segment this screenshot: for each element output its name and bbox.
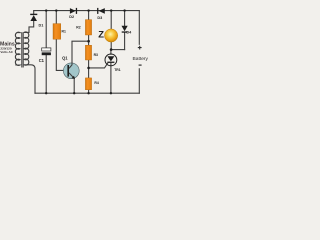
svg-text:Volts AC: Volts AC	[0, 50, 13, 54]
svg-text:Battery: Battery	[133, 56, 149, 62]
wire C1 bottom lead	[45, 55, 47, 93]
wire LED/D4/TR1 anode node	[111, 49, 124, 51]
SCR TR1	[105, 54, 117, 66]
svg-text:TR1: TR1	[114, 68, 121, 72]
wire R1 top lead	[55, 11, 57, 24]
junction node R2/R3/Q1 collector	[87, 40, 90, 43]
capacitor C1	[42, 48, 51, 55]
wire LED bottom lead	[110, 42, 112, 49]
svg-text:R4: R4	[94, 81, 98, 85]
junction node R3/R4/TR1 gate	[87, 67, 90, 70]
wire gate node to TR1 gate	[89, 63, 108, 68]
junction top rail / LED	[110, 9, 112, 11]
transistor Q1	[63, 41, 79, 93]
transformer T1 core	[22, 32, 23, 67]
wire D4 bottom lead	[124, 32, 126, 49]
diode D4	[122, 26, 128, 33]
wire top rail	[34, 10, 140, 12]
wire TR1 anode	[110, 50, 112, 55]
wire C1 top lead	[45, 11, 47, 48]
wire R1 bottom lead to Q1 base	[56, 39, 67, 71]
junction top rail / D4	[123, 9, 125, 11]
svg-text:Z: Z	[98, 28, 104, 39]
diode D2	[70, 8, 77, 14]
resistor R2	[85, 20, 91, 35]
wire R2 bottom lead	[88, 35, 90, 45]
svg-text:D3: D3	[97, 16, 102, 20]
wire LED top lead	[110, 11, 112, 29]
wire secondary bottom to bottom rail	[24, 65, 35, 93]
svg-text:Q1: Q1	[62, 55, 68, 60]
svg-text:D2: D2	[69, 15, 74, 19]
wire R3 bottom to R4 top	[88, 60, 90, 78]
junction top rail / R1	[55, 9, 57, 11]
resistor R4	[85, 78, 91, 90]
wire Q1 collector to R2/R3 node	[72, 40, 89, 42]
junction bottom rail / R4	[87, 92, 89, 94]
junction bottom rail / Q1 emitter	[73, 92, 75, 94]
wire bottom rail	[35, 92, 139, 94]
junction LED / D4 / TR1 anode	[110, 48, 113, 51]
wire right rail upper	[138, 11, 140, 45]
junction bottom rail / C1	[45, 92, 47, 94]
wire right rail lower	[138, 69, 140, 93]
resistor R1	[53, 24, 61, 40]
wire TR1 cathode	[110, 63, 112, 94]
LED lamp	[105, 29, 118, 42]
svg-text:R1: R1	[62, 29, 66, 33]
transformer T1 secondary winding	[24, 32, 29, 65]
diode D1	[30, 11, 37, 21]
battery plus terminal	[138, 46, 142, 50]
battery minus terminal	[139, 64, 142, 66]
junction top rail / C1	[45, 9, 47, 11]
wire R2 top lead	[88, 11, 90, 20]
resistor R3	[85, 45, 91, 60]
wire D1 anode to secondary top	[24, 21, 34, 33]
wire R4 bottom lead	[88, 90, 90, 93]
svg-text:R3: R3	[94, 53, 98, 57]
background	[0, 0, 150, 99]
junction bottom rail / TR1 cathode	[110, 92, 112, 94]
junction top rail / R2	[87, 9, 89, 11]
wire D4 top lead	[124, 11, 126, 26]
svg-text:R2: R2	[76, 26, 80, 30]
svg-text:D1: D1	[39, 23, 44, 27]
transformer T1 primary winding	[15, 32, 20, 65]
diode D3	[97, 8, 105, 14]
svg-text:C1: C1	[39, 58, 45, 63]
